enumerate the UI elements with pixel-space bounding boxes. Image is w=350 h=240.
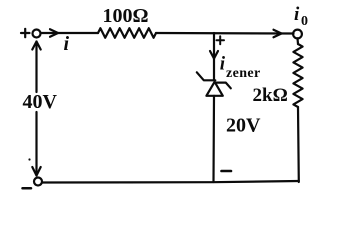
zener diode cathode bar right half with bent tail <box>215 83 231 89</box>
current label i_zener <box>220 54 261 82</box>
svg-text:0: 0 <box>301 14 308 29</box>
svg-text:zener: zener <box>226 66 261 81</box>
wire left vertical lower segment <box>35 112 37 176</box>
wire output node to 2k resistor <box>296 38 299 44</box>
voltage source negative terminal <box>34 178 42 186</box>
voltage source minus sign <box>23 187 32 190</box>
zener polarity minus sign <box>222 170 232 173</box>
wire right vertical (resistor to bottom wire) <box>297 107 300 182</box>
svg-text:i: i <box>220 54 226 75</box>
zener diode cathode bar left half with bent tail <box>197 72 216 80</box>
voltage source positive terminal <box>33 30 41 38</box>
current label i0 <box>294 4 308 29</box>
stray dot mark <box>28 158 30 160</box>
resistor 100ohm zigzag <box>98 28 156 38</box>
up arrowhead at positive terminal <box>32 42 40 50</box>
zener branch wire lower (diode to bottom wire) <box>212 96 215 182</box>
wire top left segment (source to 100ohm resistor) <box>41 32 99 34</box>
current arrow i0 <box>274 30 282 38</box>
zener current arrowhead <box>210 51 218 59</box>
svg-text:100Ω: 100Ω <box>103 5 149 27</box>
zener diode anode triangle <box>206 82 222 96</box>
svg-text:2kΩ: 2kΩ <box>253 85 288 106</box>
output terminal node <box>293 30 302 39</box>
wire left vertical upper segment <box>35 42 37 93</box>
svg-text:20V: 20V <box>226 115 261 137</box>
wire bottom <box>42 181 299 183</box>
voltage source 40V plus sign <box>21 29 30 37</box>
zener branch wire upper (junction to diode) <box>213 33 215 80</box>
svg-text:40V: 40V <box>23 91 58 113</box>
svg-text:i: i <box>64 33 70 55</box>
resistor 2k zigzag <box>293 44 302 107</box>
wire top right segment (resistor to output node) <box>156 32 294 35</box>
current arrow i <box>50 29 58 37</box>
down arrowhead at negative terminal <box>32 167 40 176</box>
svg-text:i: i <box>294 4 300 25</box>
zener polarity plus sign <box>217 36 225 44</box>
